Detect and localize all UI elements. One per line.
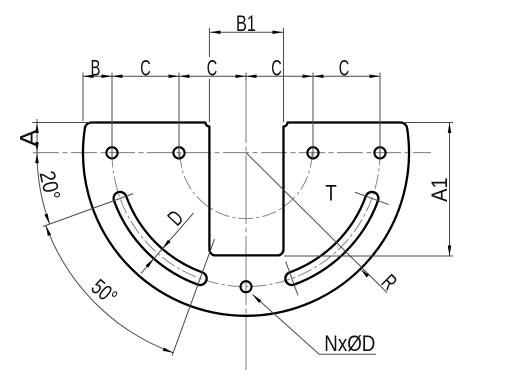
svg-text:C: C (339, 55, 350, 80)
svg-text:20°: 20° (35, 168, 66, 202)
svg-text:A1: A1 (427, 177, 452, 202)
svg-text:NxØD: NxØD (324, 331, 375, 356)
svg-text:B1: B1 (236, 11, 256, 36)
svg-text:R: R (377, 269, 402, 294)
svg-text:A: A (15, 129, 43, 147)
svg-text:C: C (271, 55, 282, 80)
svg-text:T: T (325, 181, 337, 206)
svg-text:C: C (140, 55, 151, 80)
svg-text:B: B (91, 55, 101, 80)
svg-text:D: D (163, 205, 189, 230)
svg-text:C: C (207, 55, 218, 80)
svg-text:50°: 50° (87, 274, 123, 310)
